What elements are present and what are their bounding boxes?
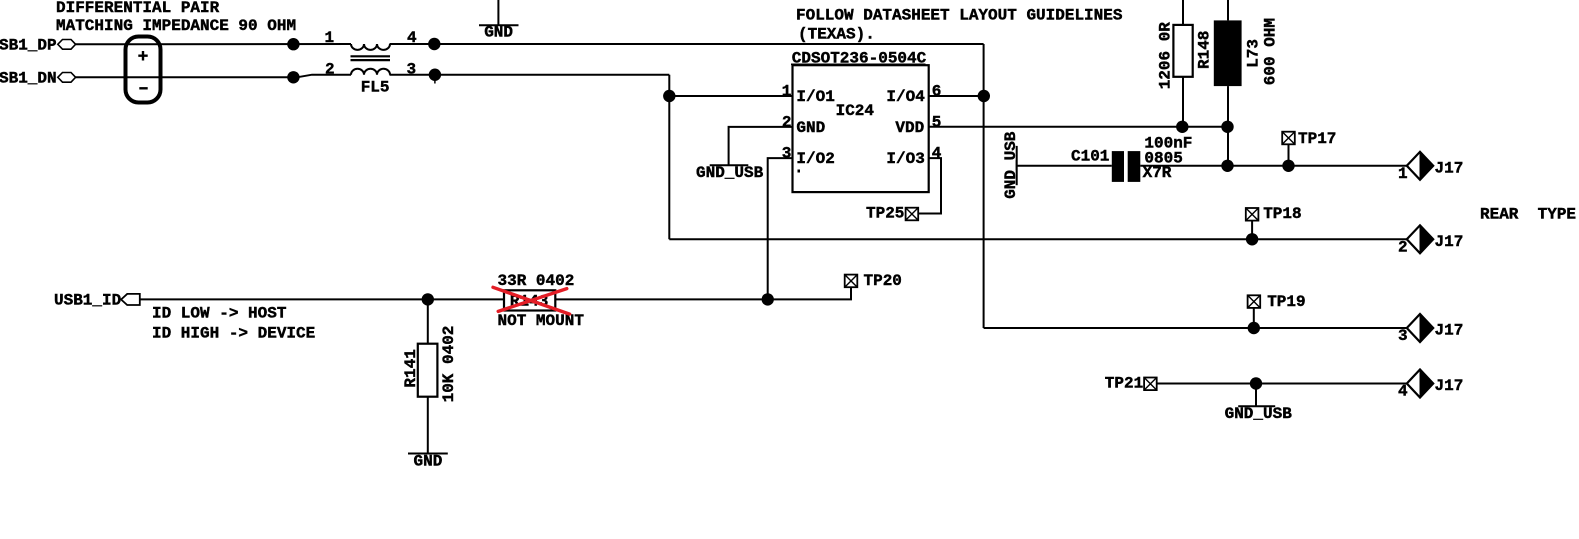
op-amp/TVS IC24 body: [793, 65, 929, 192]
svg-text:TP25: TP25: [866, 205, 904, 223]
svg-text:3: 3: [1398, 327, 1408, 345]
svg-text:REAR TYPE: REAR TYPE: [1480, 206, 1576, 224]
test point TP20: [845, 275, 858, 288]
svg-text:3: 3: [782, 145, 792, 163]
inductor L73 body: [1214, 20, 1242, 86]
resistor R141 lead bottom: [427, 397, 429, 454]
wire IC pin2 to GND_USB: [729, 127, 793, 165]
junction dot DP right of FL5: [428, 38, 440, 50]
wire vertical down to J17 pin2 row: [668, 75, 670, 240]
TP18 stub: [1251, 221, 1253, 240]
wire R143 to TP20: [555, 287, 851, 299]
svg-text:2: 2: [1398, 238, 1408, 256]
svg-text:600 OHM: 600 OHM: [1262, 18, 1280, 85]
junction dot IC pin1 branch: [663, 90, 675, 102]
svg-text:SB1_DP: SB1_DP: [0, 36, 57, 54]
svg-text:TP17: TP17: [1298, 130, 1336, 148]
resistor R143 body (not mounted): [504, 290, 555, 310]
connector J17 pin 3: [1407, 314, 1433, 342]
wire vertical down to J17 pin3 row: [983, 44, 985, 328]
svg-text:I/O4: I/O4: [886, 88, 925, 106]
stub below DN junction: [434, 75, 436, 84]
connector pin SB1_DP: [58, 40, 76, 50]
GND_USB stub under pin4: [1255, 384, 1257, 407]
svg-text:J17: J17: [1435, 377, 1464, 395]
svg-text:R148: R148: [1195, 31, 1213, 69]
svg-text:R141: R141: [402, 349, 420, 387]
svg-text:J17: J17: [1435, 322, 1464, 340]
svg-text:ID HIGH -> DEVICE: ID HIGH -> DEVICE: [152, 325, 315, 343]
red cross-out over R143: [493, 287, 570, 314]
resistor R148 lead bottom: [1182, 77, 1184, 127]
svg-text:L73: L73: [1245, 39, 1263, 68]
test point TP17: [1282, 132, 1295, 145]
svg-text:I/O1: I/O1: [796, 88, 834, 106]
common-mode choke FL5 bottom winding: [351, 69, 390, 75]
test point TP21: [1144, 378, 1157, 391]
junction dot IC pin6: [978, 90, 990, 102]
svg-text:GND: GND: [796, 119, 825, 137]
junction dot R141: [422, 293, 434, 305]
svg-text:I/O3: I/O3: [886, 150, 924, 168]
svg-text:10K 0402: 10K 0402: [440, 326, 458, 403]
connector pin SB1_DN: [58, 73, 76, 83]
wire VDD pin5 to R148/L73: [929, 126, 1228, 128]
wire IC pin4 to TP25: [919, 158, 942, 213]
ground symbol GND top: [479, 0, 519, 25]
svg-text:(TEXAS).: (TEXAS).: [798, 26, 875, 44]
junction dot DN right of FL5: [429, 69, 441, 81]
resistor R141 lead top: [427, 299, 429, 343]
wire FL5 pin3 to left corner: [390, 74, 670, 76]
connector J17 pin 2: [1407, 225, 1433, 253]
svg-text:NOT MOUNT: NOT MOUNT: [498, 312, 585, 330]
svg-text:1: 1: [1398, 165, 1408, 183]
junction dot L73/VDD: [1221, 121, 1233, 133]
wire USB1_ID to R143: [140, 298, 504, 300]
junction dot IC pin3 net: [762, 293, 774, 305]
inductor L73 lead bottom: [1227, 86, 1229, 166]
FL5 core lines: [351, 56, 391, 60]
svg-text:IC24: IC24: [836, 102, 875, 120]
resistor R148 lead top: [1182, 0, 1184, 25]
connector J17 pin 1: [1407, 152, 1433, 180]
wire C101 to J17 pin1: [1140, 165, 1407, 167]
wire SB1_DN to FL5 pin2: [76, 75, 351, 78]
junction dot L73/J17 pin1 net: [1221, 160, 1233, 172]
svg-text:6: 6: [932, 83, 942, 101]
net label tick GND_USB: [710, 164, 749, 166]
junction dot DP left of FL5: [287, 38, 299, 50]
wire SB1_DP to FL5 pin1: [76, 43, 351, 45]
svg-text:J17: J17: [1435, 160, 1464, 178]
wire J17 pin2 row: [669, 238, 1407, 240]
resistor R141 body: [418, 344, 438, 397]
connector J17 pin 4: [1407, 370, 1433, 398]
svg-text:FOLLOW DATASHEET LAYOUT GUIDEL: FOLLOW DATASHEET LAYOUT GUIDELINES: [796, 7, 1123, 25]
svg-text:33R 0402: 33R 0402: [498, 272, 575, 290]
svg-text:2: 2: [782, 113, 792, 131]
svg-text:2: 2: [325, 60, 335, 78]
svg-text:FL5: FL5: [361, 78, 390, 96]
svg-text:GND_USB: GND_USB: [1225, 405, 1293, 423]
svg-text:3: 3: [407, 60, 417, 78]
junction dot TP17: [1282, 160, 1294, 172]
junction dot R148/VDD: [1176, 121, 1188, 133]
svg-text:MATCHING IMPEDANCE 90 OHM: MATCHING IMPEDANCE 90 OHM: [56, 17, 296, 35]
svg-text:TP18: TP18: [1263, 205, 1301, 223]
test point TP25: [906, 208, 919, 221]
svg-text:5: 5: [932, 113, 942, 131]
svg-text:1: 1: [782, 83, 792, 101]
test point TP19: [1248, 295, 1261, 308]
svg-text:TP21: TP21: [1105, 375, 1143, 393]
svg-text:ID LOW -> HOST: ID LOW -> HOST: [152, 304, 287, 322]
wire J17 pin3 row: [984, 327, 1408, 329]
junction dot TP18: [1246, 233, 1258, 245]
junction dot DN left of FL5: [287, 71, 299, 83]
junction dot GND_USB pin4: [1250, 377, 1262, 389]
svg-text:I/O2: I/O2: [796, 150, 834, 168]
resistor R148 body: [1173, 25, 1192, 77]
svg-text:J17: J17: [1435, 233, 1464, 251]
connector pin USB1_ID: [121, 294, 140, 305]
wire to IC24 pin 1: [669, 95, 792, 97]
net label tick GND_USB bottom: [1238, 405, 1275, 407]
test point TP18: [1246, 208, 1259, 221]
svg-text:4: 4: [1398, 383, 1408, 401]
TP17 stub: [1288, 144, 1290, 166]
svg-text:DIFFERENTIAL PAIR: DIFFERENTIAL PAIR: [56, 0, 220, 17]
wire TP21 to J17 pin4: [1157, 383, 1408, 385]
capacitor C101 plates: [1112, 151, 1124, 182]
svg-text:VDD: VDD: [895, 119, 924, 137]
wire IC pin3 down to USB1_ID net: [768, 158, 793, 299]
svg-text:USB1_ID: USB1_ID: [54, 292, 121, 310]
svg-text:GND: GND: [484, 24, 513, 42]
net label tick GND_USB rotated: [1016, 146, 1018, 185]
wire GND_USB to C101: [1017, 165, 1112, 167]
svg-text:GND_USB: GND_USB: [696, 164, 764, 182]
svg-text:SB1_DN: SB1_DN: [0, 69, 57, 87]
differential pair marker box with + and -: [126, 37, 161, 103]
svg-text:C101: C101: [1071, 148, 1109, 166]
svg-text:1206 0R: 1206 0R: [1156, 22, 1174, 90]
TP19 stub: [1253, 308, 1255, 328]
svg-text:1: 1: [325, 29, 335, 47]
inductor L73 lead top: [1227, 0, 1229, 20]
wire FL5 pin4 to right corner: [390, 43, 984, 45]
svg-text:TP20: TP20: [864, 272, 902, 290]
ground symbol GND bottom: [408, 453, 448, 455]
common-mode choke FL5 top winding: [351, 44, 390, 50]
svg-text:GND: GND: [414, 453, 443, 471]
junction dot TP19: [1248, 322, 1260, 334]
svg-text:TP19: TP19: [1267, 293, 1305, 311]
stray dot: [798, 170, 801, 173]
wire IC pin6 to junction: [929, 95, 984, 97]
